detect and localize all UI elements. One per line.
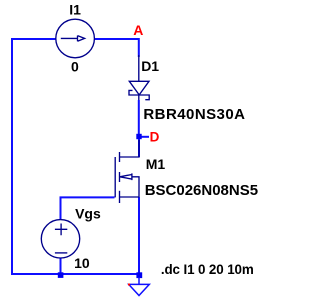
svg-text:D: D — [150, 129, 160, 144]
wire: top rail right segment to node A corner — [95, 39, 139, 57]
svg-text:M1: M1 — [146, 156, 166, 172]
wire: node D label stub — [139, 136, 149, 138]
svg-text:.dc I1 0 20 10m: .dc I1 0 20 10m — [161, 262, 254, 277]
svg-text:10: 10 — [74, 255, 90, 271]
junction node: Vgs bottom — [58, 272, 64, 278]
junction node: node D — [136, 134, 141, 139]
svg-text:D1: D1 — [141, 58, 159, 74]
svg-text:A: A — [133, 22, 143, 38]
wire: bottom rail — [11, 273, 139, 275]
wire: Vgs minus to bottom rail — [60, 258, 62, 276]
wire: top rail left segment — [12, 38, 56, 40]
svg-text:BSC026N08NS5: BSC026N08NS5 — [145, 182, 258, 199]
wire: node D to drain — [138, 137, 140, 157]
wire: Vgs plus to gate — [61, 197, 115, 220]
svg-text:Vgs: Vgs — [75, 206, 101, 222]
diode D1 cathode lead — [138, 94, 140, 101]
junction node: ground node — [136, 272, 142, 278]
voltage source Vgs — [41, 220, 79, 258]
diode D1 anode lead — [138, 55, 140, 82]
wire: M1 source down to ground rail — [138, 197, 140, 275]
svg-text:0: 0 — [71, 58, 79, 74]
transistor M1 (nmos) — [115, 140, 139, 203]
ground red dot artifact — [128, 284, 130, 286]
ground — [129, 277, 150, 296]
svg-text:I1: I1 — [69, 1, 81, 17]
current source I1 — [56, 19, 95, 58]
svg-text:RBR40NS30A: RBR40NS30A — [143, 106, 245, 123]
diode D1 (schottky) — [129, 81, 149, 99]
wire: diode cathode to node D — [138, 100, 140, 137]
wire: left rail vertical — [11, 38, 13, 275]
